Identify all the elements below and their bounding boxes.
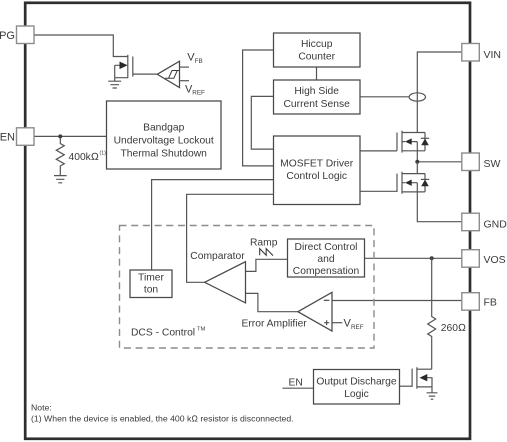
svg-text:400kΩ: 400kΩ bbox=[69, 152, 99, 163]
svg-text:Comparator: Comparator bbox=[190, 251, 245, 262]
svg-text:Counter: Counter bbox=[298, 52, 335, 63]
svg-text:GND: GND bbox=[484, 218, 507, 230]
svg-text:EN: EN bbox=[0, 131, 15, 143]
svg-text:VIN: VIN bbox=[484, 49, 502, 61]
svg-text:Direct Control: Direct Control bbox=[295, 242, 358, 253]
svg-text:EN: EN bbox=[289, 378, 303, 389]
svg-text:(1): (1) bbox=[100, 151, 107, 157]
svg-text:Undervoltage Lockout: Undervoltage Lockout bbox=[114, 136, 214, 147]
svg-text:High Side: High Side bbox=[294, 86, 339, 97]
svg-text:SW: SW bbox=[484, 158, 501, 170]
svg-text:VOS: VOS bbox=[484, 254, 506, 266]
svg-text:Error Amplifier: Error Amplifier bbox=[242, 319, 308, 330]
svg-text:REF: REF bbox=[192, 90, 205, 97]
svg-text:TM: TM bbox=[197, 327, 206, 333]
svg-text:Logic: Logic bbox=[344, 389, 369, 400]
svg-text:Timer: Timer bbox=[138, 272, 164, 283]
svg-text:Hiccup: Hiccup bbox=[301, 39, 333, 50]
svg-text:ton: ton bbox=[144, 284, 159, 295]
svg-text:Compensation: Compensation bbox=[293, 266, 360, 277]
svg-text:Ramp: Ramp bbox=[250, 238, 278, 249]
svg-text:Bandgap: Bandgap bbox=[143, 123, 185, 134]
svg-text:FB: FB bbox=[195, 58, 203, 65]
svg-text:Thermal Shutdown: Thermal Shutdown bbox=[120, 149, 207, 160]
svg-text:Note:: Note: bbox=[31, 402, 52, 412]
svg-text:FB: FB bbox=[484, 296, 497, 308]
svg-text:Output Discharge: Output Discharge bbox=[316, 377, 396, 388]
svg-text:DCS - Control: DCS - Control bbox=[131, 328, 195, 339]
svg-text:(1) When the device is enabled: (1) When the device is enabled, the 400 … bbox=[31, 414, 294, 424]
svg-text:260Ω: 260Ω bbox=[441, 323, 466, 334]
svg-text:MOSFET Driver: MOSFET Driver bbox=[280, 159, 354, 170]
svg-text:REF: REF bbox=[351, 324, 364, 331]
svg-text:Current Sense: Current Sense bbox=[283, 99, 350, 110]
svg-text:and: and bbox=[317, 254, 334, 265]
svg-text:PG: PG bbox=[0, 30, 15, 42]
svg-text:Control Logic: Control Logic bbox=[286, 171, 347, 182]
